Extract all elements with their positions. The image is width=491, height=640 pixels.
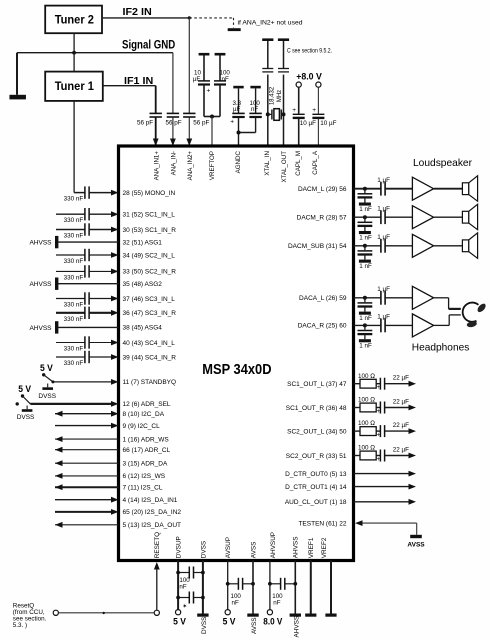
svg-text:330 nF: 330 nF: [64, 196, 84, 203]
svg-text:1 nF: 1 nF: [359, 263, 372, 270]
svg-text:5 V: 5 V: [18, 384, 31, 394]
svg-text:TESTEN (61) 22: TESTEN (61) 22: [298, 520, 346, 527]
svg-text:AVSS: AVSS: [251, 617, 258, 634]
svg-text:nF: nF: [251, 106, 258, 113]
svg-text:+: +: [377, 457, 381, 463]
svg-text:AHVSS: AHVSS: [293, 537, 300, 559]
svg-text:MSP 34x0D: MSP 34x0D: [202, 361, 271, 378]
svg-text:DACM_SUB (31) 54: DACM_SUB (31) 54: [288, 243, 347, 250]
svg-text:AHVSS: AHVSS: [29, 240, 52, 247]
svg-text:330 nF: 330 nF: [64, 258, 84, 265]
svg-text:5 V: 5 V: [223, 617, 236, 627]
svg-text:AVSS: AVSS: [250, 542, 257, 559]
svg-text:C see section 9.5.2.: C see section 9.5.2.: [287, 49, 332, 55]
svg-text:5 V: 5 V: [173, 617, 186, 627]
svg-text:330 nF: 330 nF: [64, 217, 84, 224]
svg-text:DACM_L (29) 56: DACM_L (29) 56: [298, 186, 347, 193]
svg-text:if ANA_IN2+ not used: if ANA_IN2+ not used: [238, 19, 303, 26]
svg-text:ANA_IN-: ANA_IN-: [170, 151, 177, 175]
svg-text:28 (55) MONO_IN: 28 (55) MONO_IN: [123, 190, 176, 197]
svg-text:AUD_CL_OUT (1) 18: AUD_CL_OUT (1) 18: [285, 499, 347, 506]
svg-text:30 (53) SC1_IN_R: 30 (53) SC1_IN_R: [123, 227, 177, 234]
svg-text:CAPL_A: CAPL_A: [312, 150, 319, 175]
svg-text:5 V: 5 V: [40, 363, 53, 373]
svg-text:37 (46) SC3_IN_L: 37 (46) SC3_IN_L: [123, 296, 176, 303]
svg-text:3 (15) ADR_DA: 3 (15) ADR_DA: [123, 461, 168, 468]
svg-text:100 Ω: 100 Ω: [358, 397, 375, 404]
svg-text:36 (47) SC3_IN_R: 36 (47) SC3_IN_R: [123, 310, 177, 317]
svg-text:nF: nF: [179, 584, 186, 591]
svg-text:+: +: [207, 88, 211, 95]
svg-text:+: +: [292, 107, 296, 114]
svg-text:5.3. ): 5.3. ): [13, 622, 27, 629]
svg-text:1 µF: 1 µF: [377, 314, 390, 321]
svg-text:D_CTR_OUT1 (4) 14: D_CTR_OUT1 (4) 14: [285, 484, 347, 491]
svg-text:330 nF: 330 nF: [64, 346, 84, 353]
svg-text:MHz: MHz: [277, 90, 283, 102]
svg-text:DACA_R (25) 60: DACA_R (25) 60: [298, 323, 347, 330]
svg-text:100 Ω: 100 Ω: [358, 373, 375, 380]
svg-text:330 nF: 330 nF: [64, 233, 84, 240]
svg-text:SC1_OUT_L (37) 47: SC1_OUT_L (37) 47: [287, 381, 347, 388]
svg-text:AVSS: AVSS: [407, 541, 425, 548]
svg-text:DVSS: DVSS: [200, 541, 207, 558]
svg-text:IF1 IN: IF1 IN: [124, 76, 153, 87]
svg-text:4 (14) I2S_DA_IN1: 4 (14) I2S_DA_IN1: [123, 497, 178, 504]
svg-text:10 µF: 10 µF: [300, 120, 316, 127]
svg-text:330 nF: 330 nF: [64, 360, 84, 367]
svg-text:66 (17) ADR_CL: 66 (17) ADR_CL: [123, 447, 171, 454]
svg-text:SC1_OUT_R (36) 48: SC1_OUT_R (36) 48: [286, 405, 347, 412]
svg-text:+: +: [230, 119, 234, 126]
svg-text:39 (44) SC4_IN_R: 39 (44) SC4_IN_R: [123, 354, 177, 361]
svg-text:Loudspeaker: Loudspeaker: [413, 157, 472, 169]
svg-text:DACM_R (28) 57: DACM_R (28) 57: [297, 215, 347, 222]
svg-text:22 µF: 22 µF: [393, 422, 409, 429]
svg-text:XTAL_OUT: XTAL_OUT: [281, 151, 288, 183]
svg-text:1 nF: 1 nF: [359, 235, 372, 242]
svg-text:nF: nF: [232, 600, 239, 607]
svg-text:+: +: [377, 433, 381, 439]
svg-text:µF: µF: [233, 106, 241, 113]
svg-text:XTAL_IN: XTAL_IN: [264, 151, 271, 176]
svg-text:ANA_IN2+: ANA_IN2+: [187, 151, 194, 181]
svg-text:RESETQ: RESETQ: [154, 532, 161, 558]
svg-text:8 (10) I2C_DA: 8 (10) I2C_DA: [123, 411, 165, 418]
svg-text:DVSS: DVSS: [38, 393, 56, 400]
svg-text:1 nF: 1 nF: [359, 315, 372, 322]
svg-text:1 (16) ADR_WS: 1 (16) ADR_WS: [123, 436, 170, 443]
svg-text:AHVSS: AHVSS: [29, 325, 52, 332]
svg-text:+8.0 V: +8.0 V: [296, 71, 322, 81]
svg-text:AHVSUP: AHVSUP: [270, 532, 277, 558]
svg-text:D_CTR_OUT0 (5) 13: D_CTR_OUT0 (5) 13: [285, 471, 347, 478]
svg-text:31 (52) SC1_IN_L: 31 (52) SC1_IN_L: [123, 212, 176, 219]
svg-text:22 µF: 22 µF: [393, 446, 409, 453]
svg-text:18.432: 18.432: [270, 86, 276, 105]
svg-text:+: +: [377, 385, 381, 391]
svg-text:1 µF: 1 µF: [377, 205, 390, 212]
svg-text:1 µF: 1 µF: [377, 234, 390, 241]
svg-text:AHVSS: AHVSS: [29, 281, 52, 288]
svg-text:1 µF: 1 µF: [377, 177, 390, 184]
svg-text:38 (45) ASG4: 38 (45) ASG4: [123, 325, 163, 332]
svg-text:11 (7) STANDBYQ: 11 (7) STANDBYQ: [123, 379, 177, 386]
svg-text:nF: nF: [273, 600, 280, 607]
svg-text:56 pF: 56 pF: [166, 120, 182, 127]
svg-text:34 (49) SC2_IN_L: 34 (49) SC2_IN_L: [123, 252, 176, 259]
svg-text:µF: µF: [193, 76, 201, 83]
svg-text:VREF2: VREF2: [321, 537, 328, 558]
svg-text:12 (6) ADR_SEL: 12 (6) ADR_SEL: [123, 401, 171, 408]
svg-text:22 µF: 22 µF: [393, 398, 409, 405]
svg-text:AVSUP: AVSUP: [225, 537, 232, 558]
svg-text:CAPL_M: CAPL_M: [295, 151, 302, 176]
svg-text:100 Ω: 100 Ω: [358, 420, 375, 427]
svg-text:ANA_IN1+: ANA_IN1+: [154, 151, 161, 181]
svg-text:VREF1: VREF1: [308, 537, 315, 558]
svg-text:1 µF: 1 µF: [377, 286, 390, 293]
svg-text:7 (11) I2S_CL: 7 (11) I2S_CL: [123, 485, 163, 492]
svg-text:5 (13) I2S_DA_OUT: 5 (13) I2S_DA_OUT: [123, 522, 182, 529]
svg-text:65 (20) I2S_DA_IN2: 65 (20) I2S_DA_IN2: [123, 509, 182, 516]
svg-text:330 nF: 330 nF: [64, 316, 84, 323]
svg-text:10 µF: 10 µF: [320, 120, 336, 127]
svg-text:100 Ω: 100 Ω: [358, 445, 375, 452]
svg-text:56 pF: 56 pF: [193, 120, 209, 127]
svg-text:330 nF: 330 nF: [64, 274, 84, 281]
svg-text:Signal GND: Signal GND: [122, 38, 175, 52]
svg-text:DVSS: DVSS: [201, 617, 208, 634]
svg-text:Tuner 1: Tuner 1: [55, 79, 94, 93]
svg-text:SC2_OUT_L (34) 50: SC2_OUT_L (34) 50: [287, 428, 347, 435]
svg-text:1 nF: 1 nF: [359, 343, 372, 350]
svg-text:DACA_L (26) 59: DACA_L (26) 59: [299, 295, 347, 302]
svg-text:VREFTOP: VREFTOP: [209, 151, 216, 180]
svg-text:330 nF: 330 nF: [64, 302, 84, 309]
svg-text:40 (43) SC4_IN_L: 40 (43) SC4_IN_L: [123, 340, 176, 347]
svg-text:+: +: [312, 107, 316, 114]
svg-text:22 µF: 22 µF: [393, 375, 409, 382]
svg-text:8.0 V: 8.0 V: [263, 617, 282, 627]
svg-text:32 (51) ASG1: 32 (51) ASG1: [123, 239, 163, 246]
svg-text:AHVSS: AHVSS: [293, 616, 300, 638]
svg-text:Headphones: Headphones: [412, 342, 470, 354]
svg-text:nF: nF: [222, 76, 229, 83]
svg-text:+: +: [377, 409, 381, 415]
svg-text:AGNDC: AGNDC: [235, 150, 242, 173]
svg-text:9 (9) I2C_CL: 9 (9) I2C_CL: [123, 423, 161, 430]
svg-text:SC2_OUT_R (33) 51: SC2_OUT_R (33) 51: [286, 453, 347, 460]
svg-text:35 (48) ASG2: 35 (48) ASG2: [123, 281, 163, 288]
svg-text:6 (12) I2S_WS: 6 (12) I2S_WS: [123, 473, 166, 480]
svg-text:1 nF: 1 nF: [359, 206, 372, 213]
svg-text:33 (50) SC2_IN_R: 33 (50) SC2_IN_R: [123, 269, 177, 276]
svg-text:DVSS: DVSS: [17, 414, 35, 421]
svg-text:✶: ✶: [182, 603, 187, 610]
svg-text:IF2 IN: IF2 IN: [123, 7, 152, 18]
svg-text:56 pF: 56 pF: [137, 120, 153, 127]
svg-text:DVSUP: DVSUP: [176, 536, 183, 558]
svg-text:Tuner 2: Tuner 2: [55, 12, 94, 26]
